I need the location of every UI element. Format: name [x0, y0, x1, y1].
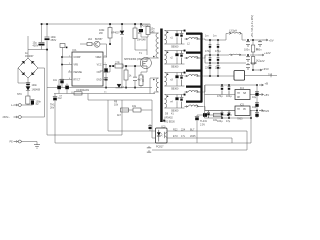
snubber network D/RC	[140, 23, 142, 25]
right rail caps lower	[256, 85, 258, 118]
row3	[205, 55, 251, 63]
IC1 pins left	[68, 57, 72, 80]
S2 rectifier D7	[165, 51, 185, 65]
svg-text:+B: +B	[265, 81, 269, 85]
transformer aux winding	[156, 78, 158, 92]
svg-text:PE: PE	[10, 141, 14, 144]
output arrow row5	[259, 84, 264, 86]
svg-text:VCC: VCC	[97, 65, 102, 67]
regulator IC5 box	[235, 106, 250, 116]
svg-text:SPP04N60 (2SK2545): SPP04N60 (2SK2545)	[124, 58, 149, 61]
resistor R3 gate 27R	[115, 64, 123, 68]
capacitor C3 100n under bridge	[26, 82, 30, 84]
inductor L3 row2	[229, 53, 241, 56]
choke L2a	[185, 37, 204, 39]
secondary winding S3	[165, 73, 167, 87]
resistor R1 startup 100k	[109, 24, 111, 44]
bridge rectifier B1	[18, 58, 38, 78]
svg-text:1m: 1m	[205, 35, 208, 38]
wire bulk cap column	[42, 24, 48, 50]
wire bottom HV loop	[47, 110, 122, 135]
choke L2c	[185, 74, 204, 76]
svg-text:1N4007: 1N4007	[25, 55, 34, 58]
zener column x106	[105, 65, 107, 88]
lower control box wires	[88, 94, 156, 139]
svg-text:UF4007: UF4007	[111, 32, 120, 35]
wire pin1 pin2 left	[62, 57, 68, 88]
wire HV+ top rail	[42, 23, 151, 25]
svg-text:1k2: 1k2	[256, 60, 261, 63]
svg-text:250V: 250V	[51, 39, 57, 42]
svg-text:IC5: IC5	[240, 103, 244, 106]
svg-text:SB560: SB560	[171, 46, 179, 49]
svg-text:VREF: VREF	[95, 57, 102, 59]
terminal PE	[18, 140, 21, 143]
primary ground bus	[47, 87, 152, 89]
wire bridge minus	[18, 68, 28, 83]
svg-text:VFB: VFB	[74, 65, 79, 67]
polarity dots	[167, 32, 169, 34]
svg-text:COMP: COMP	[74, 57, 81, 59]
resistor R5 to pin1	[60, 44, 65, 48]
TL431 row	[197, 114, 230, 116]
row2 +12V	[204, 55, 259, 58]
wire bridge plus	[28, 36, 42, 58]
choke core comb	[186, 33, 202, 102]
svg-text:R22: R22	[173, 129, 178, 132]
svg-text:NTC: NTC	[17, 93, 22, 96]
resistor R10 sense	[139, 75, 143, 86]
svg-text:2.5V: 2.5V	[200, 123, 205, 126]
wire HV+ right column	[46, 24, 48, 135]
optocoupler OC1 PC817	[156, 128, 168, 143]
svg-text:IC1: IC1	[73, 48, 78, 52]
svg-text:TR1 EE30: TR1 EE30	[164, 121, 176, 124]
svg-text:470µ: 470µ	[217, 95, 223, 98]
svg-text:10µ: 10µ	[252, 106, 257, 109]
bottom feedback vertical	[250, 110, 252, 143]
svg-text:1m: 1m	[213, 35, 216, 38]
svg-text:224: 224	[181, 129, 186, 132]
lower right rows caps	[221, 85, 224, 95]
svg-text:470µ: 470µ	[215, 50, 221, 53]
svg-text:4k7: 4k7	[117, 114, 122, 117]
svg-text:2k2: 2k2	[88, 38, 93, 41]
svg-text:BA159: BA159	[140, 25, 148, 28]
svg-text:UF5402: UF5402	[164, 117, 173, 120]
regulator Y1 box on row4	[204, 75, 278, 78]
svg-text:1k5: 1k5	[151, 30, 156, 33]
svg-text:+8V: +8V	[264, 93, 269, 97]
svg-text:L3 5µH: L3 5µH	[229, 30, 237, 33]
row6 reg top	[205, 94, 258, 96]
resistor under IC	[71, 92, 73, 94]
row8 bottom	[205, 117, 252, 119]
divider resistors +5V rail	[252, 40, 254, 70]
node junction	[46, 49, 48, 51]
Y cap 2	[148, 146, 150, 152]
wire bridge AC right	[38, 67, 45, 69]
wire primary top	[150, 24, 159, 33]
TL431 U3	[230, 114, 232, 116]
output arrow reg2	[259, 110, 264, 112]
wire aux terminals	[150, 78, 159, 94]
svg-text:220µ: 220µ	[215, 67, 221, 70]
svg-text:100µ: 100µ	[226, 95, 232, 98]
svg-text:+5V2: +5V2	[263, 109, 270, 113]
filter cap columns upper	[209, 40, 211, 76]
IC1 pins right	[103, 57, 107, 80]
S3 rectifier D8	[165, 73, 185, 87]
svg-text:470µ: 470µ	[205, 50, 211, 53]
svg-text:+3V3: +3V3	[262, 67, 269, 71]
svg-text:10µ: 10µ	[252, 96, 257, 99]
svg-text:BL7: BL7	[190, 129, 195, 132]
svg-text:0R47: 0R47	[142, 76, 145, 82]
resistor R8	[133, 108, 141, 112]
diode D2 UF4007 column	[121, 24, 123, 88]
svg-text:SB360: SB360	[171, 66, 179, 69]
wire mains N	[22, 68, 45, 117]
secondary winding S1	[165, 31, 167, 45]
S4 rectifier D9	[165, 95, 185, 109]
svg-text:27R: 27R	[115, 62, 120, 65]
resistor R7	[121, 108, 129, 112]
svg-text:+5V: +5V	[269, 38, 274, 42]
wire mains L	[22, 104, 33, 106]
svg-text:100n: 100n	[32, 84, 38, 87]
terminal L	[18, 104, 21, 107]
regulator IC4 box	[235, 90, 250, 100]
junction dots rows	[209, 39, 211, 41]
svg-text:100µ: 100µ	[217, 120, 223, 123]
wire primary bottom to drain	[147, 57, 159, 59]
svg-text:SB360: SB360	[171, 110, 179, 113]
svg-text:RT/CT: RT/CT	[74, 80, 81, 82]
transformer primary winding	[156, 33, 159, 58]
output arrow +12V	[258, 54, 264, 56]
MOSFET T1	[140, 57, 151, 68]
svg-text:+12V: +12V	[264, 51, 271, 55]
wire VCC feed	[80, 44, 107, 57]
ground chassis	[34, 145, 40, 148]
svg-text:230V~: 230V~	[3, 116, 11, 119]
row7 reg bottom	[205, 110, 258, 112]
IC1 box	[72, 52, 103, 86]
row5	[204, 107, 236, 111]
secondary winding S2	[165, 51, 167, 65]
svg-text:2kV: 2kV	[50, 106, 55, 109]
resistor R2 column	[135, 24, 147, 50]
svg-text:(⏚): (⏚)	[268, 72, 272, 76]
svg-text:UC3842AN: UC3842AN	[76, 88, 89, 92]
transformer TR1 core	[160, 29, 163, 123]
capacitor CX 100n X2	[31, 99, 35, 101]
svg-text:BC557: BC557	[95, 38, 103, 41]
capacitor on pin2 column	[60, 78, 64, 80]
wire PE to ground	[22, 142, 38, 145]
svg-text:IC4: IC4	[240, 87, 244, 90]
svg-text:7805: 7805	[237, 118, 243, 121]
RC sense filter	[126, 66, 135, 88]
row4	[204, 85, 258, 92]
svg-text:100n: 100n	[244, 49, 250, 52]
svg-text:220µ: 220µ	[205, 67, 211, 70]
svg-text:GND: GND	[96, 80, 101, 82]
svg-text:SB360: SB360	[171, 88, 179, 91]
long feedback line	[55, 142, 251, 144]
output caps right	[246, 40, 250, 47]
capacitor C1 10u/400V	[39, 41, 45, 43]
svg-text:1N4148: 1N4148	[137, 39, 146, 42]
choke L2e	[185, 105, 204, 107]
output arrow reg1	[259, 94, 264, 96]
opto wires	[167, 131, 247, 143]
svg-text:1N5408: 1N5408	[32, 88, 41, 91]
svg-text:IC3: IC3	[162, 126, 166, 129]
wire OUT gate drive	[107, 66, 142, 72]
svg-text:400V: 400V	[33, 44, 39, 47]
dots on bus	[105, 87, 107, 89]
output arrow +5V	[262, 39, 268, 41]
S1 rectifier D6	[165, 31, 185, 45]
transistor Q1 small	[94, 41, 100, 47]
svg-text:2045: 2045	[190, 135, 196, 138]
secondary winding S4	[165, 95, 167, 109]
capacitor C2 100n	[45, 36, 50, 38]
diode between buses	[116, 84, 123, 88]
svg-text:17L: 17L	[181, 135, 186, 138]
row1 +5V	[204, 34, 263, 41]
svg-text:E7U: E7U	[173, 135, 178, 138]
Y-capacitor column	[54, 94, 56, 144]
terminal N	[18, 116, 21, 119]
wire source	[141, 68, 147, 75]
caps on ground bus	[57, 84, 69, 86]
choke L2d	[185, 90, 204, 92]
output arrow row3	[251, 62, 257, 64]
thermistor NTC	[26, 96, 30, 104]
svg-text:PC817: PC817	[156, 145, 164, 148]
svg-text:47µ: 47µ	[226, 120, 231, 123]
long line 2	[152, 131, 247, 150]
diode D5 below bridge	[26, 87, 30, 91]
choke L2b	[185, 56, 204, 58]
svg-text:+5V / 3A (L.P+ 28V): +5V / 3A (L.P+ 28V)	[250, 15, 254, 38]
svg-text:ISENSE: ISENSE	[74, 72, 83, 74]
svg-text:OUT: OUT	[97, 72, 102, 74]
svg-text:10n: 10n	[53, 79, 58, 82]
